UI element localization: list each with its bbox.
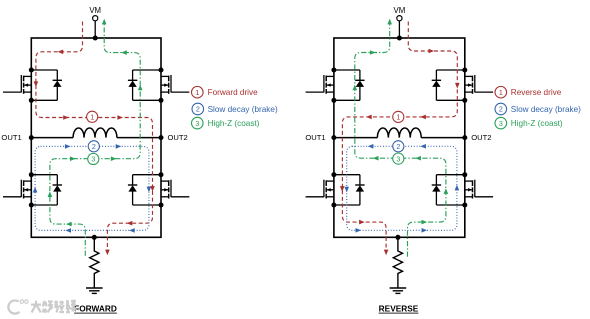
svg-text:2: 2 (92, 143, 96, 151)
arrow green left (top, left) (121, 50, 127, 55)
resistor RSENSE (left) (90, 237, 99, 287)
ground (left) (86, 288, 103, 293)
node marker 1 on red path (left) (87, 111, 98, 122)
resistor RSENSE (right) (393, 237, 402, 287)
transistor Q1 high-side left with body diode (3, 68, 62, 103)
node OUT2 dot (right) (462, 135, 467, 140)
svg-text:VM: VM (89, 6, 101, 15)
svg-text:2: 2 (499, 106, 503, 114)
svg-text:Slow decay (brake): Slow decay (brake) (208, 105, 278, 114)
ground (right) (390, 288, 407, 293)
arrow green right 1 (path 3, left) (70, 156, 76, 161)
arrow blue left 2 (path 2, right) (420, 144, 426, 149)
svg-text:1: 1 (90, 114, 94, 122)
svg-text:High-Z (coast): High-Z (coast) (511, 119, 563, 128)
arrow blue right 2 (path 2, left) (116, 144, 122, 149)
arrow red left 1 (path 1, right) (366, 115, 372, 120)
transistor Q5 high-side left with body diode (right bridge) (306, 68, 365, 103)
wire: OUT2 rail segment (right bridge) (421, 137, 465, 139)
arrow red right (bottom, right) (359, 220, 365, 225)
svg-text:2: 2 (196, 106, 200, 114)
svg-text:3: 3 (499, 120, 503, 128)
svg-text:1: 1 (195, 89, 199, 97)
arrow blue right 1 (path 2, left) (65, 144, 71, 149)
node: sense-resistor junction dot (right) (395, 235, 400, 240)
node: VM junction dot (right) (397, 36, 402, 41)
node: VM junction dot (left) (93, 36, 98, 41)
watermark logo (decorative) (8, 300, 76, 314)
arrow red down into RSENSE (left) (105, 250, 110, 256)
wire: green high-Z coast path (left circuit, dash-dot) (50, 21, 140, 256)
legend marker 1 (right) (495, 86, 507, 98)
wire: red forward-drive current path (left circuit, dashed) (36, 22, 153, 253)
node marker 2 on blue path (left) (88, 141, 99, 152)
arrow red down (Q7) (340, 186, 345, 192)
transistor Q6 high-side right with body diode (right bridge) (432, 68, 493, 103)
arrow green left 1 (path 3, right) (373, 156, 379, 161)
svg-text:VM: VM (394, 6, 406, 15)
node OUT1 dot (left) (29, 135, 34, 140)
arrow blue right 2 (bottom, right) (422, 228, 428, 233)
wire: OUT1 rail segment (right bridge) (334, 137, 378, 139)
arrow red down (Q1) (34, 81, 39, 87)
arrow green up (Q8) (444, 188, 449, 194)
arrow red down into RSENSE (right) (384, 250, 389, 256)
legend marker 2 (right) (495, 103, 507, 115)
VM supply lead (right) (398, 21, 400, 38)
inductor (motor winding, right bridge) (377, 128, 421, 138)
node marker 3 on green path (right) (393, 153, 404, 164)
svg-text:REVERSE: REVERSE (379, 304, 419, 314)
wire: OUT1 rail segment (left bridge) (31, 137, 73, 139)
svg-text:2: 2 (396, 143, 400, 151)
svg-text:3: 3 (195, 120, 199, 128)
svg-text:FORWARD: FORWARD (74, 304, 117, 314)
svg-text:OUT2: OUT2 (168, 133, 188, 142)
arrow green up (Q2) (138, 85, 143, 91)
arrow blue down (Q4) (147, 187, 152, 193)
arrow blue up (Q3) (33, 187, 38, 193)
svg-text:3: 3 (91, 156, 95, 164)
arrow green up (Q5) (353, 85, 358, 91)
svg-text:OUT1: OUT1 (1, 133, 21, 142)
node OUT2 dot (left) (159, 135, 164, 140)
arrow red right 2 (path 1, left) (117, 115, 123, 120)
svg-text:Forward drive: Forward drive (208, 88, 258, 97)
arrow green up (Q3) (48, 191, 53, 197)
arrow blue left 1 (path 2, right) (368, 144, 374, 149)
svg-text:1: 1 (396, 114, 400, 122)
wire: right bridge outline (334, 38, 465, 237)
wire: blue slow-decay loop (right circuit, dotted) (347, 146, 457, 230)
legend marker 1 (left) (192, 86, 204, 98)
node marker 1 on red path (right) (393, 111, 404, 122)
transistor Q3 low-side left with body diode (3, 172, 62, 207)
VM supply lead (left) (94, 21, 96, 38)
arrow blue down (Q7) (344, 187, 349, 193)
svg-text:Slow decay (brake): Slow decay (brake) (511, 105, 581, 114)
arrow green right (top, right) (370, 50, 376, 55)
wire: blue slow-decay loop (left circuit, dotted) (35, 146, 149, 230)
svg-text:OUT1: OUT1 (305, 133, 325, 142)
node: sense-resistor junction dot (left) (92, 235, 97, 240)
arrow green up into VM (right) (387, 19, 392, 25)
node marker 3 on green path (left) (88, 153, 99, 164)
arrow green right 2 (path 3, left) (111, 156, 117, 161)
transistor Q8 low-side right with body diode (right bridge) (432, 172, 493, 207)
legend marker 2 (left) (192, 103, 204, 115)
svg-text:OUT2: OUT2 (471, 133, 491, 142)
arrow blue left 2 (bottom, left) (129, 228, 135, 233)
arrow blue right 1 (bottom, right) (356, 228, 362, 233)
arrow red right (top, right circuit) (429, 49, 435, 54)
svg-text:High-Z (coast): High-Z (coast) (208, 119, 260, 128)
arrow red down (Q4) (150, 186, 155, 192)
wire: red reverse-drive current path (right circuit, dashed) (342, 22, 457, 253)
arrow green up into VM (left) (102, 19, 107, 25)
transistor Q2 high-side right with body diode (128, 68, 189, 103)
arrow red left (top segment, left) (58, 50, 64, 55)
svg-text:3: 3 (396, 155, 400, 163)
arrow blue up (Q8) (455, 185, 460, 191)
svg-text:1: 1 (499, 89, 503, 97)
arrow green left (bottom, left) (66, 222, 72, 227)
legend marker 3 (right) (495, 117, 507, 129)
arrow red right 1 (path 1, left) (63, 115, 69, 120)
arrow red left 2 (path 1, right) (420, 115, 426, 120)
legend marker 3 (left) (192, 117, 204, 129)
wire: left bridge outline (31, 38, 161, 237)
node marker 2 on blue path (right) (393, 141, 404, 152)
arrow green left 2 (path 3, right) (415, 156, 421, 161)
arrow red down (Q6) (455, 83, 460, 89)
wire: OUT2 rail segment (left bridge) (117, 137, 161, 139)
transistor Q7 low-side left with body diode (right bridge) (306, 172, 365, 207)
arrow red left (bottom, left) (127, 221, 133, 226)
node OUT1 dot (right) (331, 135, 336, 140)
VM terminal circle (left) (93, 16, 98, 21)
arrow blue left 1 (bottom, left) (65, 228, 71, 233)
wire: green high-Z coast path (right circuit, dash-dot) (355, 21, 446, 257)
inductor (motor winding, left bridge) (73, 128, 117, 138)
transistor Q4 low-side right with body diode (128, 172, 189, 207)
arrow green right (bottom, right) (422, 220, 428, 225)
VM terminal circle (right) (397, 16, 402, 21)
svg-text:Reverse drive: Reverse drive (511, 88, 562, 97)
